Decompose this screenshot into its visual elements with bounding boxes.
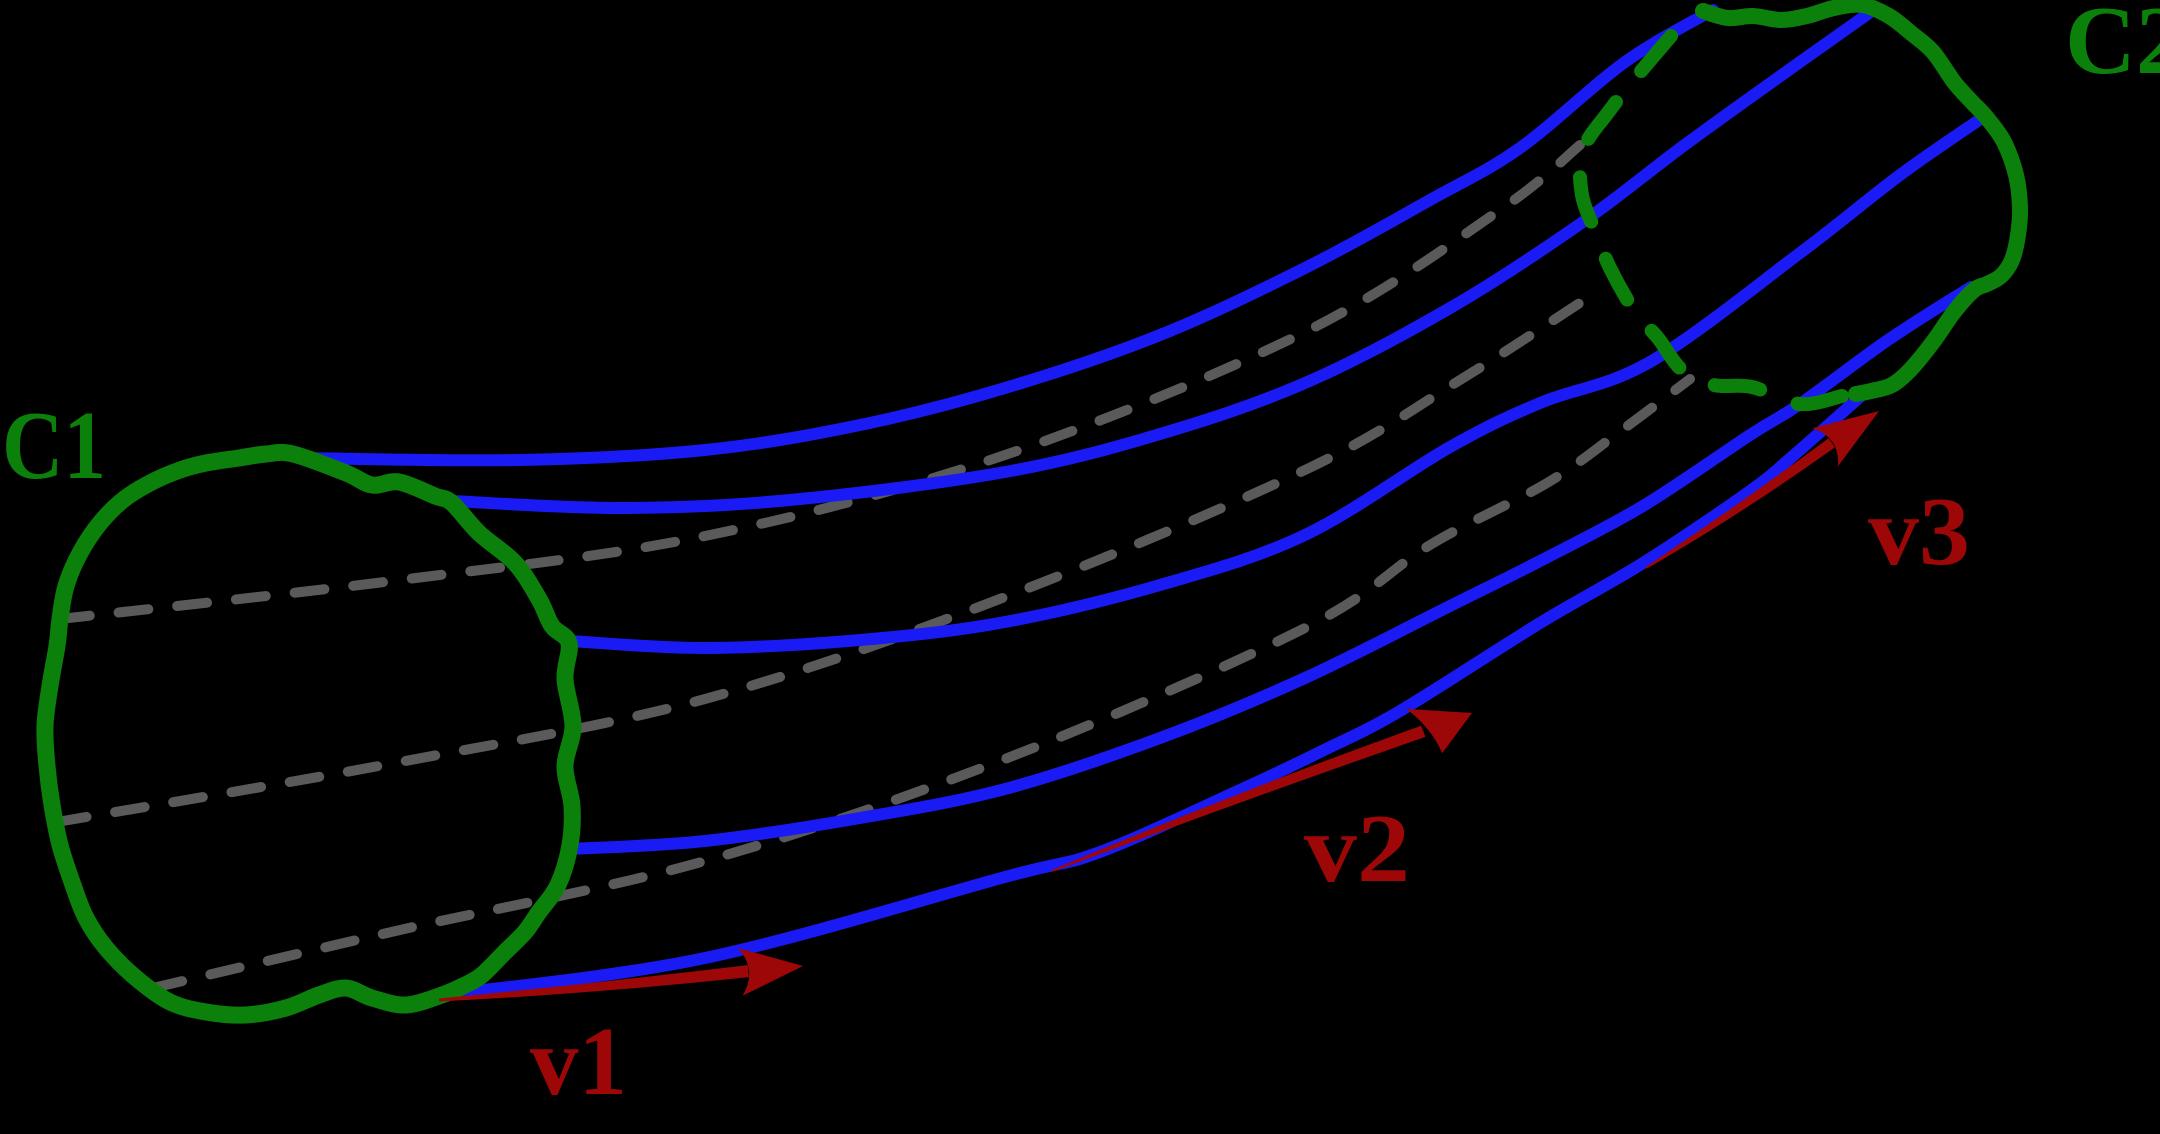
svg-text:v3: v3 [1868, 478, 1970, 586]
vector v1 arrow shaft [439, 965, 749, 1001]
svg-text:C2: C2 [2065, 0, 2160, 95]
vector v2 arrowhead [1406, 709, 1472, 753]
vector v3 arrowhead [1812, 411, 1879, 466]
streamline L2 [452, 11, 1872, 508]
vector v3 arrow shaft [1645, 438, 1834, 569]
svg-text:v1: v1 [530, 1008, 627, 1116]
svg-text:v2: v2 [1304, 795, 1410, 903]
curve C2 solid part [1703, 5, 2020, 394]
streamline L1 [299, 10, 1713, 460]
svg-text:C1: C1 [2, 392, 106, 500]
hidden streamline dashed D3 [153, 379, 1690, 988]
vector v1 arrowhead [738, 948, 803, 996]
curve C2 hidden dashed part [1580, 36, 1842, 404]
hidden streamline dashed D1 [60, 145, 1580, 619]
hidden streamline dashed D2 [57, 293, 1595, 822]
vector v2 arrow shaft [1052, 726, 1426, 872]
streamline L4 [570, 287, 1971, 849]
streamline L5 [442, 396, 1861, 995]
curve C1 closed blob [45, 452, 573, 1015]
streamline L3 [570, 118, 1982, 648]
